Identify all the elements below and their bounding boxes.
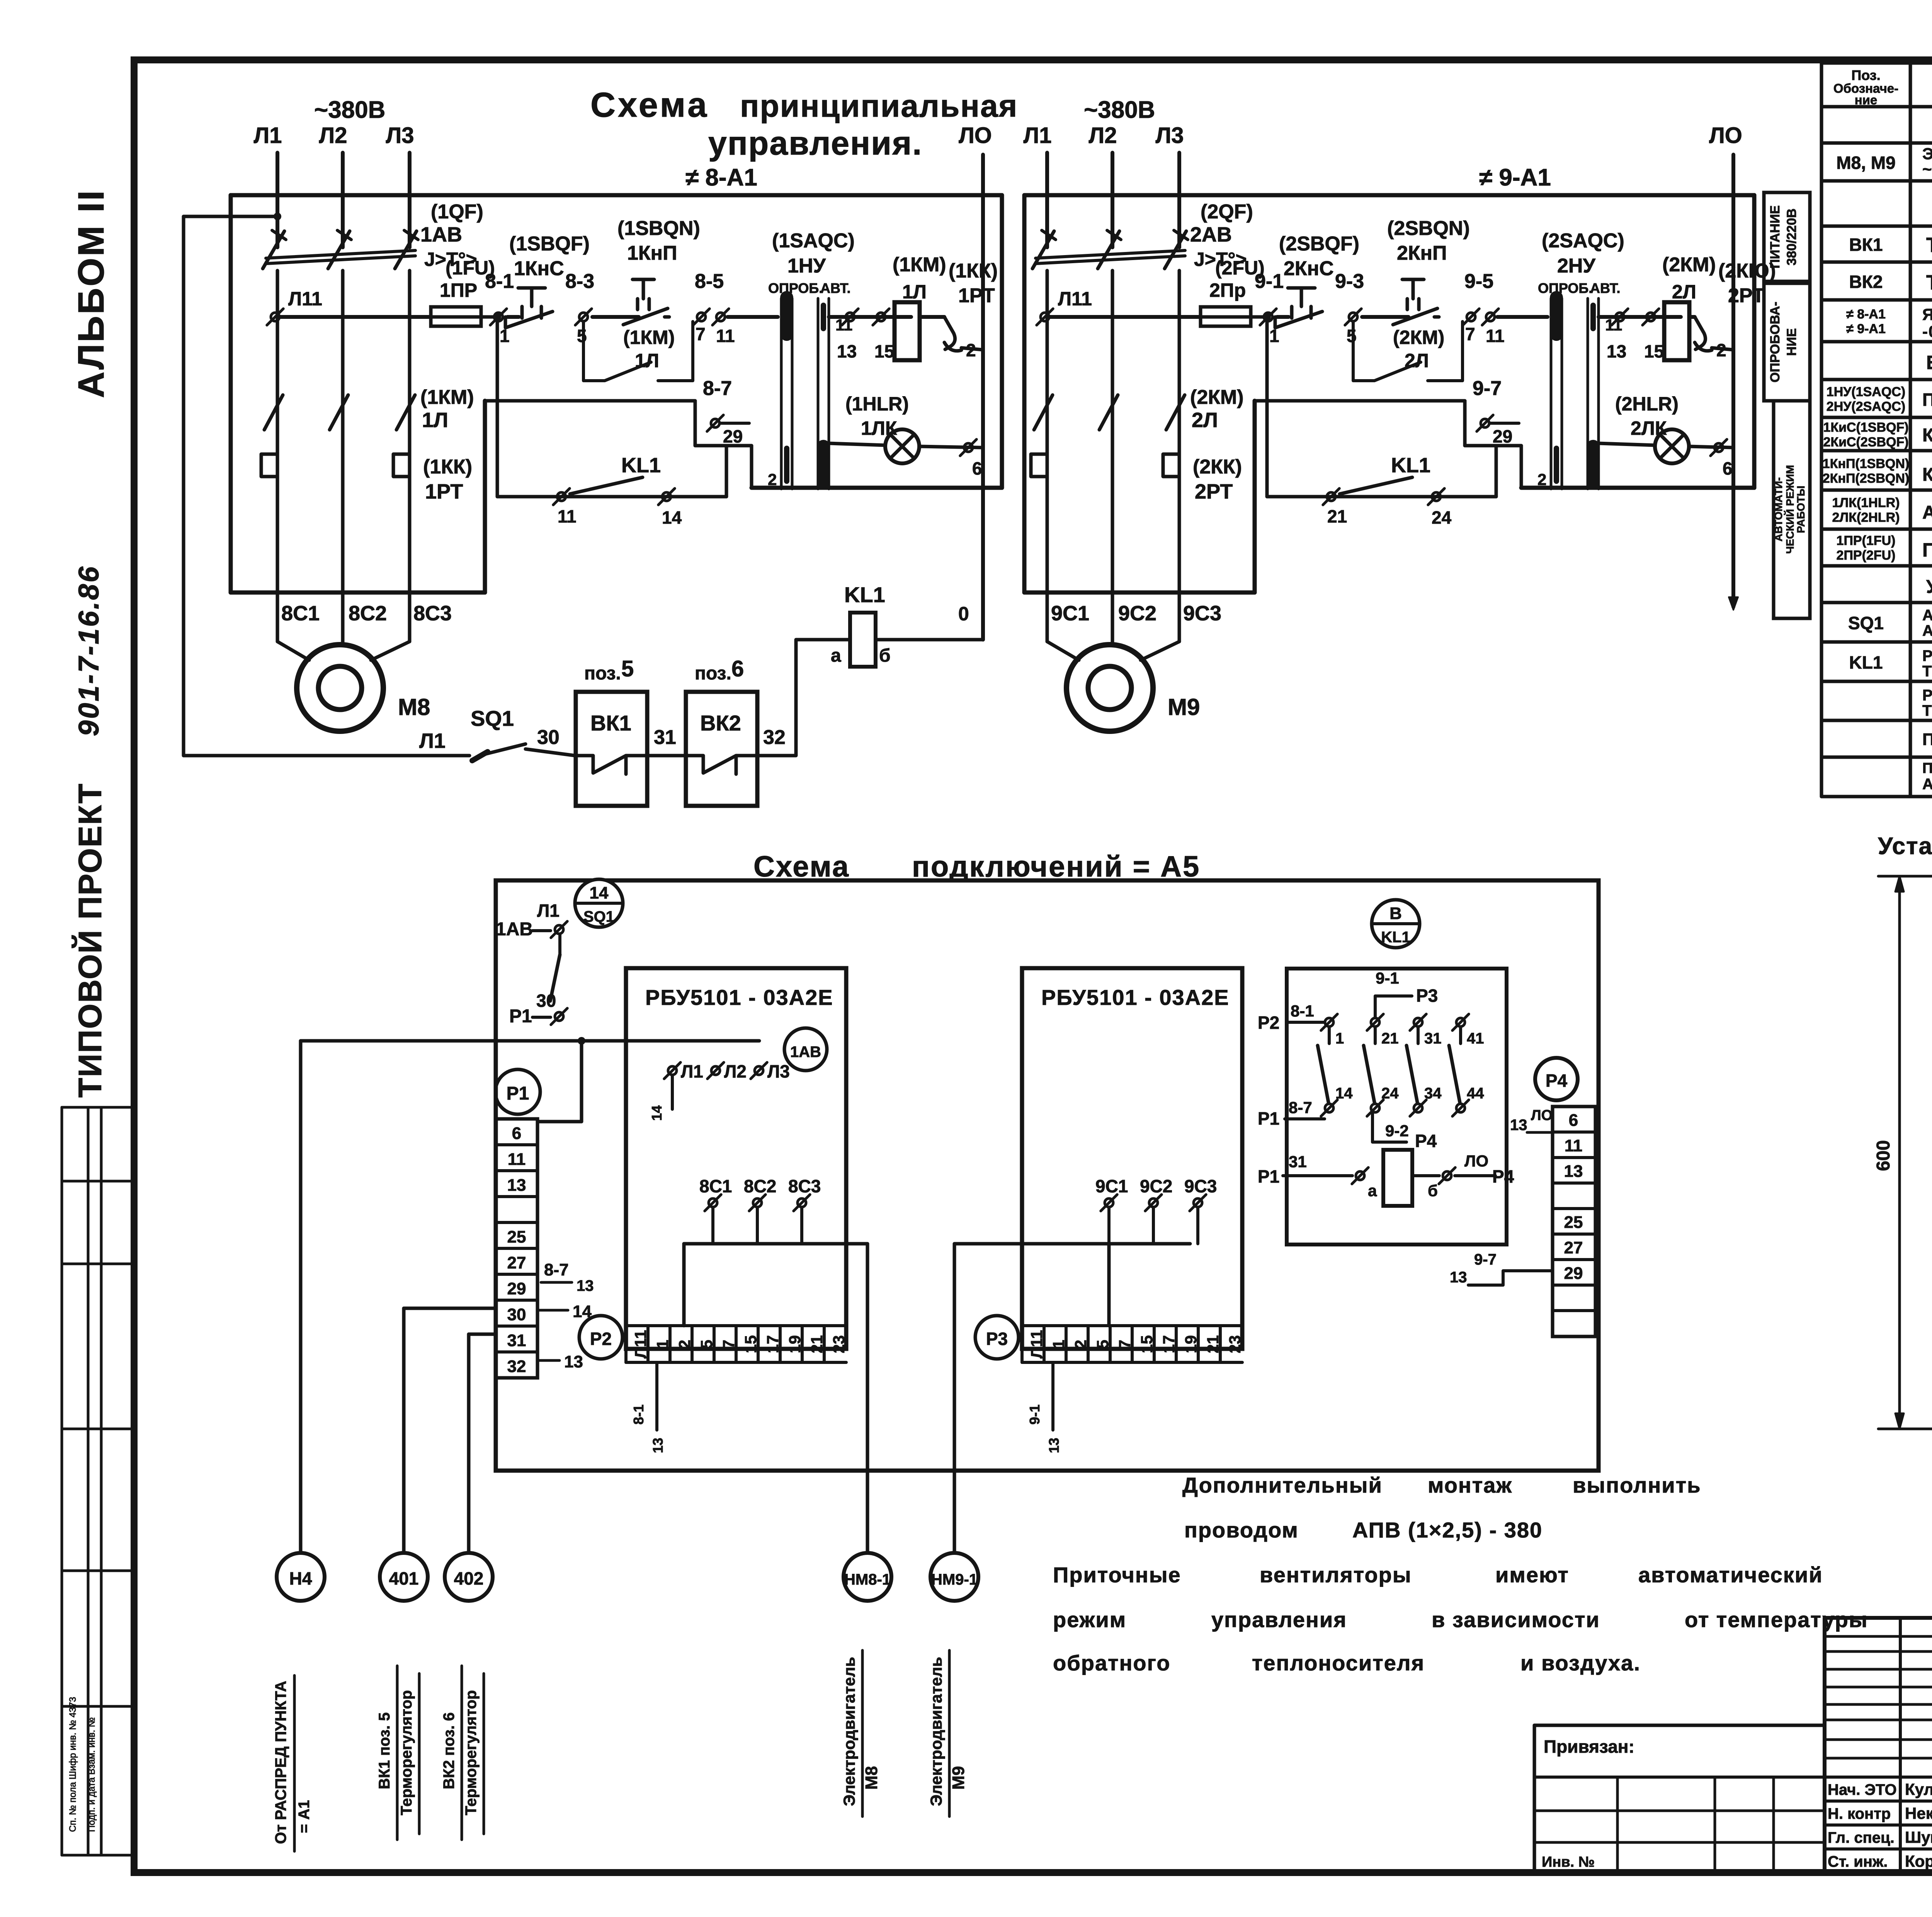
wire BK2 to relay coil xyxy=(757,640,850,756)
svg-text:14: 14 xyxy=(590,884,609,902)
svg-text:1КнП(1SBQN): 1КнП(1SBQN) xyxy=(1823,456,1909,471)
svg-text:27: 27 xyxy=(1564,1238,1583,1257)
contacts 13 15 (8) xyxy=(829,315,911,319)
svg-text:15: 15 xyxy=(874,341,894,361)
svg-text:11: 11 xyxy=(1565,1136,1583,1155)
svg-text:13: 13 xyxy=(1607,341,1626,361)
svg-text:Р4: Р4 xyxy=(1492,1166,1514,1187)
svg-text:ЛО: ЛО xyxy=(1709,123,1742,148)
node circle НМ9-1 xyxy=(930,1553,978,1601)
svg-text:ние: ние xyxy=(1855,93,1878,107)
svg-text:ОПРОБОВА-: ОПРОБОВА- xyxy=(1768,301,1782,382)
svg-text:SQ1: SQ1 xyxy=(1848,613,1884,633)
thermal relay 1KK heaters xyxy=(261,454,277,477)
svg-text:(1КМ): (1КМ) xyxy=(420,386,474,409)
svg-text:30: 30 xyxy=(536,991,556,1011)
svg-text:Р3: Р3 xyxy=(1416,986,1438,1006)
svg-text:24: 24 xyxy=(1381,1085,1399,1102)
svg-text:ВК2: ВК2 xyxy=(700,711,741,735)
svg-text:(2HLR): (2HLR) xyxy=(1615,393,1679,415)
svg-text:11: 11 xyxy=(716,326,735,346)
svg-text:Некрасов: Некрасов xyxy=(1905,1804,1932,1822)
svg-text:13: 13 xyxy=(507,1176,526,1195)
svg-text:принципиальная: принципиальная xyxy=(740,89,1018,124)
svg-text:Ящик управления = А5 ти: Ящик управления = А5 типа ЯУ5117 - xyxy=(1922,305,1932,323)
svg-text:Арматура сигнальная АЕ 3: Арматура сигнальная АЕ 32 11 У3 xyxy=(1922,502,1932,523)
svg-text:2: 2 xyxy=(1716,340,1726,360)
svg-text:Н. контр: Н. контр xyxy=(1828,1805,1891,1822)
signature rows xyxy=(1825,1776,1932,1779)
svg-text:2НУ: 2НУ xyxy=(1557,255,1595,277)
svg-text:8С3: 8С3 xyxy=(788,1176,821,1196)
svg-text:Терморегулятор: Терморегулятор xyxy=(463,1690,480,1815)
svg-text:14: 14 xyxy=(662,507,682,528)
svg-text:(1HLR): (1HLR) xyxy=(845,393,909,415)
svg-text:б: б xyxy=(879,645,891,666)
svg-text:34: 34 xyxy=(1424,1085,1442,1102)
svg-text:Р3: Р3 xyxy=(986,1329,1008,1349)
svg-text:1Л: 1Л xyxy=(422,409,448,432)
svg-text:Л1: Л1 xyxy=(681,1061,703,1081)
svg-text:РАБОТЫ: РАБОТЫ xyxy=(1795,486,1807,533)
fuse 2PR (2FU) xyxy=(1201,307,1251,326)
svg-text:9С2: 9С2 xyxy=(1118,602,1156,625)
svg-text:23: 23 xyxy=(830,1335,848,1353)
relay KL1 contacts row (8) xyxy=(496,322,499,497)
contactor coil 2L xyxy=(1664,302,1689,360)
svg-text:9С2: 9С2 xyxy=(1140,1176,1172,1196)
bus to NM8-1 xyxy=(684,1242,867,1246)
svg-text:9-3: 9-3 xyxy=(1335,270,1364,293)
svg-text:9С3: 9С3 xyxy=(1184,1176,1217,1196)
svg-text:23: 23 xyxy=(1226,1335,1244,1353)
svg-text:≠ 9-А1: ≠ 9-А1 xyxy=(1479,164,1551,191)
svg-text:6: 6 xyxy=(1723,458,1733,478)
aux contact 2KM seal-in xyxy=(1353,322,1463,381)
thermal relay 2KK heaters xyxy=(1031,454,1047,477)
svg-text:30: 30 xyxy=(537,726,560,749)
svg-text:ВК1: ВК1 xyxy=(1849,235,1883,255)
svg-text:АВТ.: АВТ. xyxy=(1590,280,1621,296)
svg-text:2: 2 xyxy=(966,340,976,360)
svg-text:14: 14 xyxy=(649,1105,665,1121)
svg-text:(2КК): (2КК) xyxy=(1193,456,1242,478)
svg-text:Л2: Л2 xyxy=(1089,123,1117,148)
svg-text:в зависимости: в зависимости xyxy=(1432,1607,1600,1632)
svg-text:13: 13 xyxy=(1510,1117,1527,1134)
svg-text:1ПР(1FU): 1ПР(1FU) xyxy=(1837,533,1896,548)
svg-text:Р1: Р1 xyxy=(1258,1166,1279,1187)
svg-text:Р2: Р2 xyxy=(1258,1013,1279,1033)
svg-text:29: 29 xyxy=(723,426,743,446)
svg-text:1НУ(1SAQC): 1НУ(1SAQC) xyxy=(1827,385,1905,399)
svg-text:KL1: KL1 xyxy=(1391,454,1430,477)
svg-text:Ст. инж.: Ст. инж. xyxy=(1828,1853,1888,1870)
svg-text:8С2: 8С2 xyxy=(744,1176,776,1196)
svg-text:Р1: Р1 xyxy=(1258,1108,1279,1129)
svg-text:(2КЮ): (2КЮ) xyxy=(1718,260,1776,282)
svg-text:8-1: 8-1 xyxy=(485,270,514,293)
svg-text:подключений = А5: подключений = А5 xyxy=(912,850,1200,883)
title block xyxy=(1825,1616,1932,1620)
svg-text:SQ1: SQ1 xyxy=(471,706,514,730)
svg-text:13: 13 xyxy=(1450,1269,1467,1286)
svg-text:(1КК): (1КК) xyxy=(949,260,998,282)
svg-text:401: 401 xyxy=(389,1568,419,1588)
svg-text:KL1: KL1 xyxy=(1849,652,1883,672)
svg-text:8-5: 8-5 xyxy=(695,270,724,293)
svg-text:2КнП(2SBQN): 2КнП(2SBQN) xyxy=(1823,471,1909,486)
svg-text:(1QF): (1QF) xyxy=(431,201,483,223)
svg-text:ЧЕСКИЙ РЕЖИМ: ЧЕСКИЙ РЕЖИМ xyxy=(1784,465,1796,554)
relay KL1 contact box xyxy=(1287,969,1507,1245)
svg-text:РБУ5101 - 03А2Е: РБУ5101 - 03А2Е xyxy=(645,985,833,1010)
terminal strip Р3 xyxy=(975,1316,1019,1359)
svg-text:Королева: Королева xyxy=(1905,1852,1932,1870)
mode strip: power 380/220 xyxy=(1764,192,1810,281)
svg-text:8-3: 8-3 xyxy=(565,270,594,293)
svg-text:1АВ: 1АВ xyxy=(496,919,533,940)
svg-text:автоматический: автоматический xyxy=(1638,1563,1823,1587)
svg-text:= А1: = А1 xyxy=(296,1800,313,1833)
svg-text:2АВ: 2АВ xyxy=(1190,223,1232,246)
svg-text:8С1: 8С1 xyxy=(281,602,320,625)
motor M8 xyxy=(297,645,383,731)
svg-text:2КнП: 2КнП xyxy=(1397,242,1447,264)
svg-text:9-2: 9-2 xyxy=(1385,1122,1409,1140)
svg-text:Электродвигатель: Электродвигатель xyxy=(927,1657,945,1806)
svg-text:ЛО: ЛО xyxy=(959,123,992,148)
svg-text:Р4: Р4 xyxy=(1415,1131,1437,1151)
svg-text:проводом: проводом xyxy=(1184,1518,1299,1542)
svg-text:21: 21 xyxy=(1327,506,1347,526)
svg-text:KL1: KL1 xyxy=(844,582,885,607)
KL1 contacts xyxy=(1325,1018,1333,1027)
svg-text:2НУ(2SAQC): 2НУ(2SAQC) xyxy=(1827,399,1905,414)
svg-text:ТИПОВОЙ ПРОЕКТ: ТИПОВОЙ ПРОЕКТ xyxy=(72,783,108,1098)
privyazan box xyxy=(1534,1724,1825,1727)
svg-text:Подп. и дата Взам. инв. №: Подп. и дата Взам. инв. № xyxy=(87,1717,97,1832)
svg-text:(1SBQF): (1SBQF) xyxy=(509,233,590,255)
svg-text:8-7: 8-7 xyxy=(703,377,732,400)
contact 9-7 / terminal 29 xyxy=(1255,399,1465,403)
svg-text:ОПРОБ.: ОПРОБ. xyxy=(768,280,823,296)
wires from 401/402 into P1 xyxy=(404,1307,496,1310)
svg-text:9-1: 9-1 xyxy=(1255,270,1284,293)
svg-text:Кулагин: Кулагин xyxy=(1905,1780,1932,1798)
svg-text:901-7-16.86: 901-7-16.86 xyxy=(73,565,105,736)
circuit breaker 2AV (2QF) xyxy=(1032,231,1054,269)
svg-text:32: 32 xyxy=(507,1357,526,1376)
svg-text:30: 30 xyxy=(507,1305,526,1324)
net L3 feeder (9) xyxy=(1177,153,1181,247)
svg-text:2Л: 2Л xyxy=(1192,409,1218,432)
svg-text:9С3: 9С3 xyxy=(1183,602,1221,625)
svg-text:НМ8-1: НМ8-1 xyxy=(844,1571,891,1588)
svg-text:-03А2Е Jр = 2,5А Jн: -03А2Е Jр = 2,5А Jн = 1,6А xyxy=(1922,322,1932,340)
node circle Н4 xyxy=(277,1553,325,1601)
feed taps L1 L2 L3 with 1AB marker xyxy=(668,1066,677,1075)
svg-text:ТУ 16 - 523, 593 - 80: ТУ 16 - 523, 593 - 80 xyxy=(1922,702,1932,719)
svg-text:имеют: имеют xyxy=(1495,1563,1569,1587)
net L1 feeder (8) xyxy=(276,153,279,247)
svg-text:25: 25 xyxy=(1564,1213,1583,1232)
fuse 1PR (1FU) xyxy=(431,307,481,326)
svg-text:13: 13 xyxy=(1046,1438,1062,1453)
svg-text:13: 13 xyxy=(1564,1162,1583,1181)
svg-text:≠ 9-А1: ≠ 9-А1 xyxy=(1846,322,1886,336)
svg-text:1РТ: 1РТ xyxy=(958,284,995,307)
svg-text:2РТ: 2РТ xyxy=(1195,480,1233,503)
svg-text:Блок управления РБУ5101: Блок управления РБУ5101 - 03А2Е xyxy=(1926,352,1932,373)
svg-text:(1КК): (1КК) xyxy=(423,456,472,478)
net L3 feeder (8) xyxy=(408,153,412,247)
svg-text:Терморегулятор ТУДЭ - 8: Терморегулятор ТУДЭ - 8 xyxy=(1926,271,1932,294)
svg-text:М9: М9 xyxy=(1168,694,1200,720)
thermal NC contact 2RT xyxy=(1689,315,1695,319)
mode strip: automatic mode xyxy=(1774,401,1810,618)
svg-text:11: 11 xyxy=(558,506,577,526)
svg-text:Н4: Н4 xyxy=(289,1568,312,1588)
terminal strip Р2 xyxy=(579,1316,622,1359)
svg-text:(2QF): (2QF) xyxy=(1201,201,1253,223)
svg-text:1Л: 1Л xyxy=(902,281,927,303)
svg-text:управления: управления xyxy=(1211,1607,1347,1632)
svg-text:1КиС(1SBQF): 1КиС(1SBQF) xyxy=(1823,420,1908,435)
svg-text:29: 29 xyxy=(1493,426,1512,446)
svg-text:Л11: Л11 xyxy=(288,288,322,310)
svg-text:Профиль монтажный К238У2: Профиль монтажный К238У2 ℓ=600 xyxy=(1922,730,1932,749)
svg-text:АВТОМАТИ-: АВТОМАТИ- xyxy=(1772,477,1784,541)
svg-text:1Л: 1Л xyxy=(635,350,659,371)
svg-text:Л11: Л11 xyxy=(1058,288,1092,310)
net L0 (8) xyxy=(981,155,985,640)
svg-text:6: 6 xyxy=(972,458,982,478)
svg-text:ВК2 поз. 6: ВК2 поз. 6 xyxy=(440,1712,457,1789)
strip Р3 feed 9-1 xyxy=(1051,1362,1054,1430)
svg-text:9-5: 9-5 xyxy=(1464,270,1493,293)
svg-text:Р1: Р1 xyxy=(509,1006,532,1027)
marker circle 14/SQ1 xyxy=(575,879,623,927)
svg-text:8С2: 8С2 xyxy=(349,602,387,625)
svg-text:Р1: Р1 xyxy=(507,1083,529,1104)
relay KL1 contacts row (9) xyxy=(1265,322,1269,497)
svg-text:(1КМ): (1КМ) xyxy=(623,327,675,348)
svg-text:ТУ 16 - 523. 593 - 80: ТУ 16 - 523. 593 - 80 xyxy=(1922,663,1932,680)
svg-text:31: 31 xyxy=(1289,1153,1307,1171)
svg-text:29: 29 xyxy=(1564,1264,1583,1283)
wire from N4 xyxy=(299,1041,303,1553)
svg-text:Сп. № пола Шифр инв. № 4373: Сп. № пола Шифр инв. № 4373 xyxy=(68,1697,78,1832)
svg-text:~380В: ~380В xyxy=(1084,97,1155,123)
svg-text:KL1: KL1 xyxy=(621,454,661,477)
svg-text:6: 6 xyxy=(1569,1111,1578,1130)
revision mini rows xyxy=(1825,1635,1932,1638)
svg-text:и воздуха.: и воздуха. xyxy=(1520,1651,1641,1675)
strip Р2 feed 8-1 xyxy=(655,1362,658,1430)
svg-text:поз.: поз. xyxy=(584,663,621,684)
svg-text:Нач. ЭТО: Нач. ЭТО xyxy=(1828,1781,1897,1798)
svg-text:9-7: 9-7 xyxy=(1473,377,1502,400)
svg-text:Л1: Л1 xyxy=(254,123,282,148)
svg-text:6: 6 xyxy=(731,656,744,681)
svg-text:(2КМ): (2КМ) xyxy=(1393,327,1444,348)
svg-text:ЛО: ЛО xyxy=(1531,1107,1553,1124)
svg-text:9-1: 9-1 xyxy=(1376,969,1399,987)
svg-text:8С3: 8С3 xyxy=(413,602,452,625)
svg-text:9С1: 9С1 xyxy=(1095,1176,1128,1196)
net L2 feeder (8) xyxy=(341,153,345,247)
control unit RBU5101 box (Р3) xyxy=(1022,968,1242,1349)
svg-text:Кнопка управления КЕ -: Кнопка управления КЕ - 011У3 xyxy=(1922,425,1932,446)
contactor 2KM main contacts xyxy=(1046,271,1049,425)
contacts 13 15 (9) xyxy=(1599,315,1681,319)
svg-text:13: 13 xyxy=(577,1277,594,1294)
svg-text:(2КМ): (2КМ) xyxy=(1662,254,1716,276)
marker circle B/KL1 xyxy=(1372,900,1420,948)
svg-text:1АВ: 1АВ xyxy=(420,223,462,246)
svg-text:2РТ: 2РТ xyxy=(1728,284,1765,307)
svg-text:РБУ5101 - 03А2Е: РБУ5101 - 03А2Е xyxy=(1041,985,1230,1010)
svg-text:От РАСПРЕД ПУНКТА: От РАСПРЕД ПУНКТА xyxy=(272,1681,289,1844)
svg-text:Л1: Л1 xyxy=(1024,123,1052,148)
svg-text:2: 2 xyxy=(1537,470,1546,489)
svg-text:600: 600 xyxy=(1873,1140,1894,1171)
svg-text:44: 44 xyxy=(1467,1085,1484,1102)
aux contact 1KM seal-in xyxy=(583,322,693,381)
svg-text:8С1: 8С1 xyxy=(699,1176,732,1196)
terminal strip P4 xyxy=(1535,1058,1578,1100)
svg-text:KL1: KL1 xyxy=(1381,929,1410,946)
svg-text:М8, М9: М8, М9 xyxy=(1836,153,1895,173)
svg-text:14: 14 xyxy=(1335,1085,1353,1102)
svg-text:32: 32 xyxy=(763,726,786,749)
svg-text:Л3: Л3 xyxy=(1156,123,1184,148)
svg-text:2ПР(2FU): 2ПР(2FU) xyxy=(1837,548,1896,563)
svg-text:Автоматический выключател: Автоматический выключатель xyxy=(1922,607,1932,624)
svg-text:В: В xyxy=(1389,904,1402,923)
svg-text:Р2: Р2 xyxy=(590,1329,612,1349)
svg-text:б: б xyxy=(1428,1182,1438,1200)
svg-text:8-7: 8-7 xyxy=(544,1260,569,1279)
components table xyxy=(1821,61,1932,65)
terminal strip P1 xyxy=(495,1069,540,1114)
svg-text:8-1: 8-1 xyxy=(631,1405,646,1425)
svg-text:монтаж: монтаж xyxy=(1428,1473,1512,1497)
svg-text:2Л: 2Л xyxy=(1405,350,1429,371)
svg-text:Л1: Л1 xyxy=(537,901,560,921)
svg-text:5: 5 xyxy=(1347,326,1357,346)
svg-text:11: 11 xyxy=(508,1150,526,1169)
svg-text:Инв. №: Инв. № xyxy=(1542,1854,1595,1870)
svg-text:(2SBQN): (2SBQN) xyxy=(1387,217,1470,240)
svg-text:1ЛК(1HLR): 1ЛК(1HLR) xyxy=(1832,495,1900,510)
svg-text:режим: режим xyxy=(1053,1607,1126,1632)
svg-text:(1SBQN): (1SBQN) xyxy=(617,217,700,240)
svg-text:1АВ: 1АВ xyxy=(790,1044,821,1061)
svg-text:АПВ (1×2,5) - 380: АПВ (1×2,5) - 380 xyxy=(1922,776,1932,793)
net L0 (9) xyxy=(1731,155,1735,607)
svg-text:ОПРОБ.: ОПРОБ. xyxy=(1538,280,1592,296)
svg-text:М9: М9 xyxy=(949,1766,968,1789)
svg-text:SQ1: SQ1 xyxy=(583,908,614,925)
svg-text:Приточные: Приточные xyxy=(1053,1563,1181,1587)
svg-text:380/220В: 380/220В xyxy=(1784,208,1799,265)
node circle 402 xyxy=(445,1553,493,1601)
svg-text:(2SAQC): (2SAQC) xyxy=(1542,230,1624,252)
svg-text:402: 402 xyxy=(454,1568,484,1588)
svg-text:5: 5 xyxy=(577,326,587,346)
svg-text:АЛЬБОМ II: АЛЬБОМ II xyxy=(71,189,112,398)
svg-text:2КиС(2SBQF): 2КиС(2SBQF) xyxy=(1823,435,1908,449)
svg-text:21: 21 xyxy=(1381,1030,1399,1047)
node circle НМ8-1 xyxy=(844,1553,891,1601)
svg-text:1КнС: 1КнС xyxy=(514,257,564,280)
svg-text:1: 1 xyxy=(1335,1030,1344,1047)
svg-text:31: 31 xyxy=(507,1331,526,1350)
svg-text:0: 0 xyxy=(958,603,969,625)
net L1 feeder (9) xyxy=(1045,153,1049,247)
svg-text:Терморегулятор ТУДЭ - 9: Терморегулятор ТУДЭ - 9 xyxy=(1926,233,1932,257)
privyazan grid xyxy=(1534,1810,1825,1812)
svg-text:Л3: Л3 xyxy=(767,1061,790,1081)
connection outer box xyxy=(496,880,1599,1471)
svg-text:29: 29 xyxy=(507,1279,526,1298)
svg-text:7: 7 xyxy=(1465,324,1475,344)
svg-text:ВК2: ВК2 xyxy=(1849,272,1883,292)
svg-text:Л2: Л2 xyxy=(319,123,347,148)
svg-text:Терморегулятор: Терморегулятор xyxy=(398,1690,415,1815)
svg-text:выполнить: выполнить xyxy=(1573,1473,1701,1497)
svg-text:6: 6 xyxy=(512,1124,521,1143)
svg-text:Гл. спец.: Гл. спец. xyxy=(1828,1829,1895,1846)
svg-text:2ЛК(2HLR): 2ЛК(2HLR) xyxy=(1832,510,1900,525)
svg-text:НИЕ: НИЕ xyxy=(1784,328,1799,356)
svg-text:М8: М8 xyxy=(398,694,430,720)
net L2 feeder (9) xyxy=(1111,153,1114,247)
svg-text:2: 2 xyxy=(768,470,777,489)
svg-text:31: 31 xyxy=(654,726,676,749)
svg-text:Розетка РП 21 - 2 - УХЛ: Розетка РП 21 - 2 - УХЛ4 xyxy=(1922,687,1932,704)
svg-text:24: 24 xyxy=(1432,507,1452,528)
dim 600 vertical xyxy=(1898,876,1901,1429)
svg-text:АЕ 1031 - 14У; 6А; 1,5Ун;: АЕ 1031 - 14У; 6А; 1,5Ун; IP20 xyxy=(1922,622,1932,639)
svg-text:13: 13 xyxy=(564,1352,583,1371)
svg-text:Электродвигатель: Электродвигатель xyxy=(840,1657,858,1806)
circuit breaker 1AV (1QF) xyxy=(263,231,284,269)
svg-text:Поз.: Поз. xyxy=(1851,67,1880,83)
svg-text:Схема: Схема xyxy=(590,86,709,124)
svg-text:8-7: 8-7 xyxy=(1289,1098,1312,1117)
svg-text:1КнП: 1КнП xyxy=(627,242,677,264)
svg-text:вентиляторы: вентиляторы xyxy=(1260,1563,1412,1587)
svg-text:1ПР: 1ПР xyxy=(440,279,477,301)
svg-text:5: 5 xyxy=(621,656,634,681)
margin stamp strip xyxy=(61,1107,63,1855)
svg-text:обратного: обратного xyxy=(1053,1651,1170,1675)
svg-text:≠ 8-А1: ≠ 8-А1 xyxy=(1846,307,1886,322)
bus wire to P1 and RBU1 xyxy=(301,1039,759,1043)
svg-text:АПВ (1×2,5) - 380: АПВ (1×2,5) - 380 xyxy=(1352,1518,1543,1542)
svg-text:2Пр: 2Пр xyxy=(1209,279,1246,301)
svg-text:ПИТАНИЕ: ПИТАНИЕ xyxy=(1768,205,1782,269)
svg-text:Шумилов: Шумилов xyxy=(1905,1828,1932,1846)
svg-text:Л1: Л1 xyxy=(419,729,446,752)
svg-text:7: 7 xyxy=(696,324,706,344)
svg-text:27: 27 xyxy=(507,1253,526,1272)
svg-text:ВК1: ВК1 xyxy=(590,711,631,735)
svg-text:Привязан:: Привязан: xyxy=(1544,1737,1634,1757)
